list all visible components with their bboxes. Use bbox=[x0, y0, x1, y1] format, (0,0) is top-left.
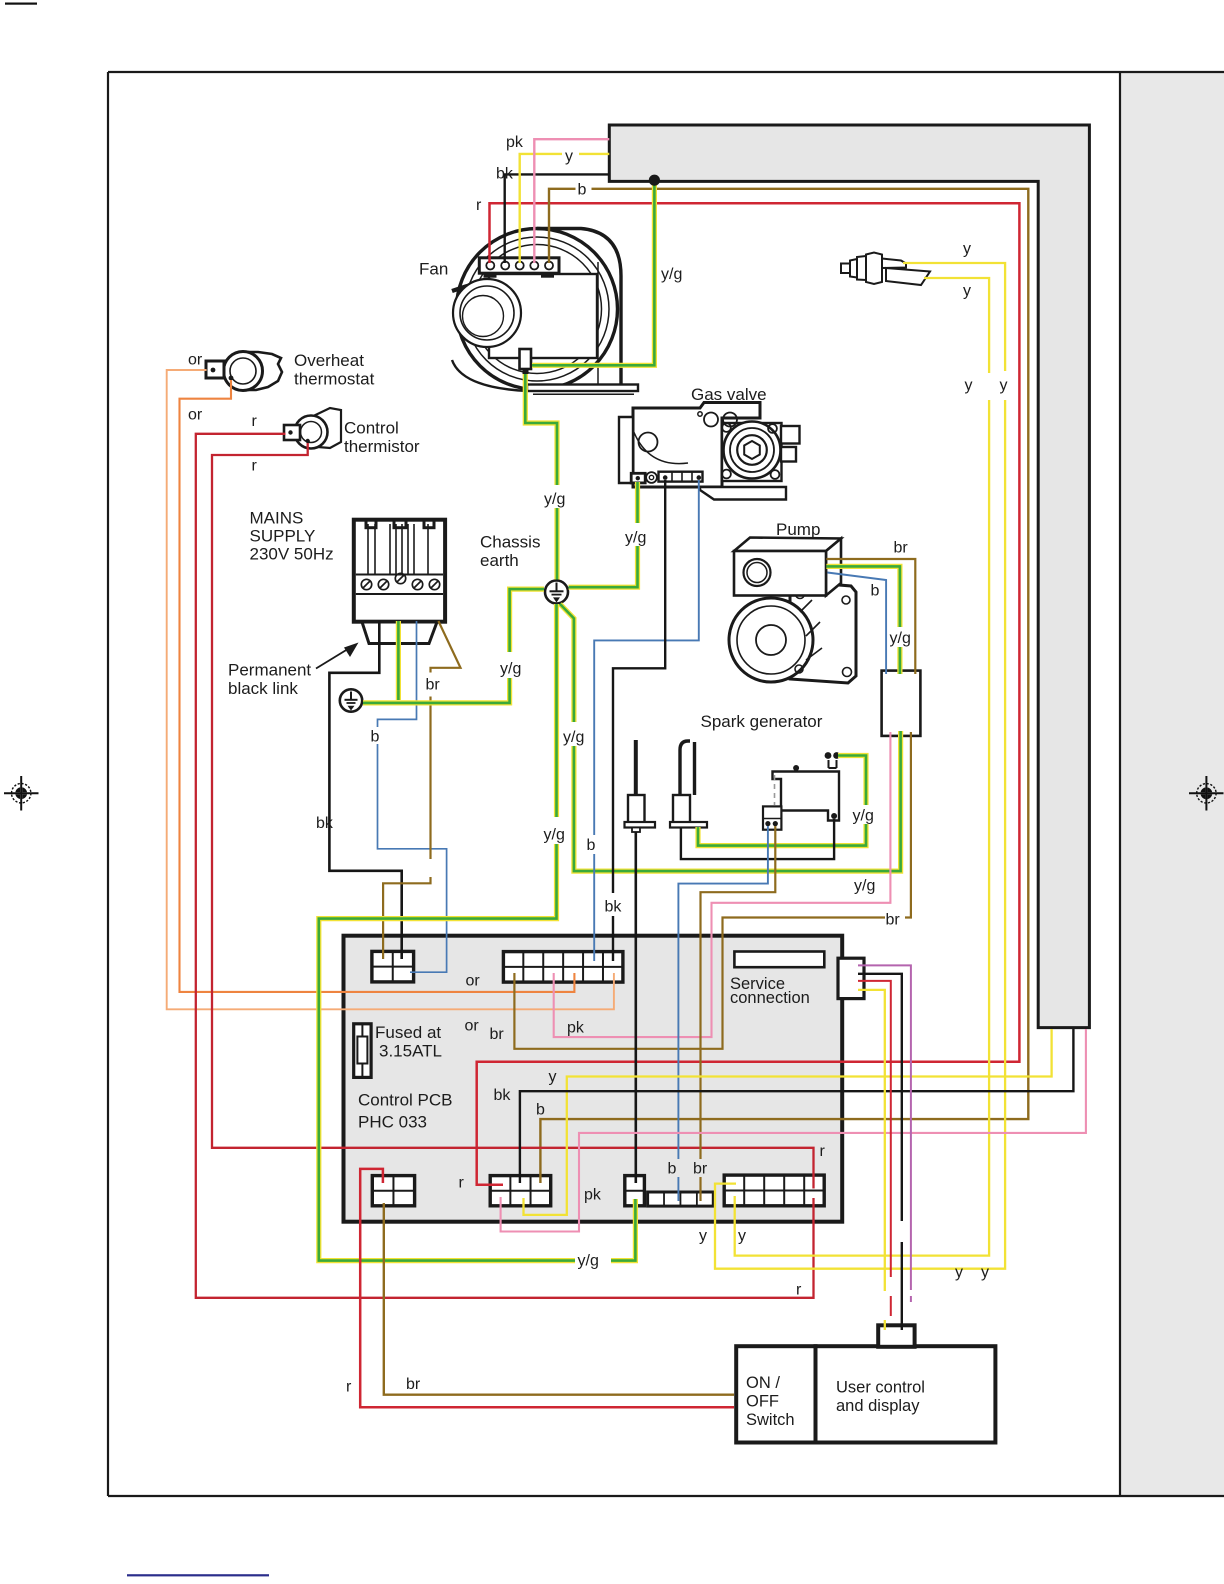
svg-text:Fused at: Fused at bbox=[375, 1023, 441, 1042]
fan connector pins 1-5 bbox=[486, 262, 494, 270]
pump terminal box bbox=[734, 538, 841, 596]
svg-text:or: or bbox=[188, 407, 203, 424]
fuse F1 symbol bbox=[354, 1024, 371, 1078]
wire bk sense electrode to PCB bbox=[634, 832, 637, 1183]
wire bk casing to PCB bbox=[520, 1029, 1074, 1183]
svg-text:b: b bbox=[371, 729, 380, 746]
service connection bar bbox=[734, 952, 824, 968]
svg-text:y: y bbox=[699, 1228, 707, 1245]
svg-text:bk: bk bbox=[494, 1087, 512, 1104]
wire r control thermistor B bbox=[212, 443, 814, 1189]
junction dot casing earth bbox=[649, 175, 660, 186]
svg-text:thermistor: thermistor bbox=[344, 437, 420, 456]
svg-text:b: b bbox=[668, 1161, 677, 1178]
svg-text:y/g: y/g bbox=[854, 878, 875, 895]
svg-text:b: b bbox=[578, 182, 587, 199]
PCB terminal block TB2 (top-middle 6-way) bbox=[503, 952, 623, 983]
registration target right bbox=[1189, 776, 1224, 811]
svg-text:r: r bbox=[252, 413, 258, 430]
svg-text:Overheat: Overheat bbox=[294, 351, 364, 370]
svg-text:or: or bbox=[188, 352, 203, 369]
svg-text:Gas valve: Gas valve bbox=[691, 385, 767, 404]
PCB service connector CN2 (right edge) bbox=[838, 958, 864, 998]
wire b pump to suppressor bbox=[827, 573, 886, 675]
svg-text:y: y bbox=[981, 1264, 989, 1281]
svg-text:User control: User control bbox=[836, 1379, 925, 1397]
svg-text:y/g: y/g bbox=[563, 729, 584, 746]
wire violet service connection bbox=[858, 965, 911, 1290]
svg-text:y/g: y/g bbox=[500, 661, 521, 678]
boiler casing grey band bbox=[609, 125, 1089, 1028]
svg-text:y: y bbox=[565, 148, 573, 165]
svg-text:r: r bbox=[796, 1282, 802, 1299]
svg-text:Control: Control bbox=[344, 419, 399, 438]
svg-text:y: y bbox=[738, 1228, 746, 1245]
PCB earth terminal TB5 bbox=[625, 1176, 645, 1206]
wire or overheat thermostat 1 bbox=[167, 370, 614, 1009]
svg-text:r: r bbox=[459, 1175, 465, 1192]
wire pk fan bbox=[534, 139, 609, 263]
svg-text:pk: pk bbox=[506, 134, 524, 151]
svg-text:y/g: y/g bbox=[853, 808, 874, 825]
overheat thermostat S2 body bbox=[206, 352, 282, 391]
svg-text:3.15ATL: 3.15ATL bbox=[379, 1042, 442, 1061]
svg-text:y/g: y/g bbox=[625, 530, 646, 547]
wire b fan (brown) bbox=[549, 189, 576, 263]
wire y/g chassis to suppressor bbox=[560, 604, 574, 722]
user control connector CN3 bbox=[878, 1325, 914, 1347]
user control and display box bbox=[816, 1346, 996, 1442]
svg-text:br: br bbox=[894, 540, 909, 557]
mains supply terminal block X1 bbox=[354, 520, 445, 622]
grey sidebar panel (right) bbox=[1121, 73, 1224, 1495]
svg-text:b: b bbox=[587, 837, 596, 854]
print registration bar top-left bbox=[5, 3, 37, 5]
svg-text:y: y bbox=[1000, 377, 1008, 394]
wire b spark generator to PCB bbox=[678, 826, 768, 1159]
svg-text:Control PCB: Control PCB bbox=[358, 1091, 452, 1110]
gas valve Y1 body bbox=[619, 403, 800, 500]
svg-text:Chassis: Chassis bbox=[480, 533, 540, 552]
svg-text:230V 50Hz: 230V 50Hz bbox=[250, 545, 334, 564]
spark generator relay block bbox=[763, 806, 781, 829]
spark ignition electrode E2 bbox=[670, 741, 707, 828]
svg-text:thermostat: thermostat bbox=[294, 370, 375, 389]
svg-text:Switch: Switch bbox=[746, 1411, 795, 1429]
wire y/g fan earth from casing dot bbox=[532, 181, 654, 365]
svg-text:PHC 033: PHC 033 bbox=[358, 1113, 427, 1132]
svg-text:or: or bbox=[466, 973, 481, 990]
svg-text:r: r bbox=[820, 1143, 826, 1160]
svg-text:br: br bbox=[693, 1161, 708, 1178]
svg-text:Permanent: Permanent bbox=[228, 661, 311, 680]
wire br pump to suppressor bbox=[826, 559, 915, 674]
wire bk gas valve bbox=[613, 480, 665, 893]
registration target left bbox=[4, 776, 39, 811]
control PCB PHC 033 board bbox=[344, 936, 843, 1222]
svg-text:br: br bbox=[886, 912, 901, 929]
wire y/g chassis to PCB earth terminal bbox=[554, 604, 559, 817]
wire br spark generator to PCB bbox=[701, 826, 776, 1159]
wire b gas valve bbox=[594, 480, 699, 835]
wire bk mains permanent black link bbox=[329, 621, 401, 959]
svg-text:y: y bbox=[963, 283, 971, 300]
svg-text:r: r bbox=[346, 1379, 352, 1396]
wire b mains neutral bbox=[378, 621, 417, 727]
wire br PCB to on/off switch bbox=[384, 1203, 734, 1395]
wire y/g spark generator earth strap bbox=[838, 756, 866, 806]
fan connector CN1 bbox=[479, 258, 559, 273]
PCB terminal block TB1 (top-left) bbox=[372, 951, 414, 982]
chassis earth symbol bbox=[545, 581, 568, 604]
fan earth port bbox=[520, 349, 532, 369]
PCB terminal block TB7 (bottom-right 5-way) bbox=[724, 1175, 824, 1206]
svg-text:r: r bbox=[252, 458, 258, 475]
svg-text:br: br bbox=[406, 1376, 421, 1393]
mains earth terminal symbol bbox=[340, 689, 362, 711]
svg-text:br: br bbox=[490, 1026, 505, 1043]
svg-text:pk: pk bbox=[567, 1020, 585, 1037]
svg-text:y: y bbox=[963, 241, 971, 258]
svg-text:or: or bbox=[465, 1018, 480, 1035]
svg-text:OFF: OFF bbox=[746, 1393, 779, 1411]
wire r service connection bbox=[858, 981, 891, 1277]
svg-text:br: br bbox=[426, 677, 441, 694]
svg-text:Pump: Pump bbox=[776, 520, 820, 539]
svg-text:y/g: y/g bbox=[890, 630, 911, 647]
svg-text:y/g: y/g bbox=[661, 266, 682, 283]
wire y flame sensor lower bbox=[924, 278, 989, 373]
fan base plate bbox=[527, 385, 638, 392]
svg-text:Spark generator: Spark generator bbox=[701, 712, 823, 731]
control thermistor RT1 body bbox=[284, 408, 341, 449]
fan M1 blower body bbox=[452, 229, 621, 392]
wire bk service connection bbox=[858, 974, 902, 1221]
mains block screw terminals bbox=[361, 579, 371, 589]
wire pk suppressor to PCB bbox=[554, 732, 891, 1037]
spark generator unit A1 bbox=[773, 760, 840, 821]
svg-text:ON /: ON / bbox=[746, 1374, 780, 1392]
wire y/g earth bus mains to chassis bbox=[363, 678, 510, 703]
PCB terminal block TB4 (bottom-middle 3-way) bbox=[490, 1176, 551, 1206]
svg-text:y: y bbox=[549, 1069, 557, 1086]
svg-text:y: y bbox=[955, 1264, 963, 1281]
PCB low connector strip TB6 bbox=[648, 1192, 714, 1206]
wire y/g chassis to gas valve bbox=[569, 546, 638, 587]
svg-text:pk: pk bbox=[584, 1187, 602, 1204]
svg-text:SUPPLY: SUPPLY bbox=[250, 527, 316, 546]
wire r control thermistor A bbox=[196, 434, 814, 1298]
wire y service connection bbox=[858, 990, 885, 1291]
wire br suppressor to PCB bbox=[905, 732, 911, 918]
wire r fan supply bbox=[477, 203, 1020, 1184]
wire y/g fan port to chassis earth bbox=[525, 374, 557, 485]
wire br mains live bbox=[431, 621, 461, 673]
svg-text:b: b bbox=[871, 583, 880, 600]
spark sense electrode E1 bbox=[625, 740, 656, 832]
gas valve terminal pins bbox=[663, 475, 668, 480]
svg-text:r: r bbox=[476, 197, 482, 214]
wire y/g mains earth drop bbox=[396, 621, 401, 700]
gas valve earth terminal bbox=[631, 473, 645, 483]
pump M2 body bbox=[729, 581, 856, 683]
wire r PCB to on/off switch bbox=[360, 1169, 734, 1407]
wire y fan bbox=[520, 154, 562, 263]
gas valve terminal strip bbox=[659, 472, 703, 482]
svg-text:y/g: y/g bbox=[578, 1253, 599, 1270]
svg-text:b: b bbox=[536, 1102, 545, 1119]
svg-text:MAINS: MAINS bbox=[250, 509, 304, 528]
svg-text:y/g: y/g bbox=[544, 827, 565, 844]
wire y flame sensor upper bbox=[903, 263, 1005, 371]
svg-text:bk: bk bbox=[605, 899, 623, 916]
svg-text:y: y bbox=[965, 377, 973, 394]
ON/OFF switch S1 box bbox=[736, 1346, 815, 1442]
svg-text:bk: bk bbox=[316, 815, 334, 832]
wire bk ignition electrode link bbox=[681, 819, 834, 859]
svg-text:and display: and display bbox=[836, 1397, 920, 1415]
flame sensor probe bbox=[841, 253, 930, 286]
PCB terminal block TB3 (bottom-left) bbox=[372, 1176, 414, 1206]
wire pk casing to PCB bbox=[501, 1029, 1086, 1232]
interference suppressor box bbox=[882, 671, 921, 736]
wire or overheat thermostat 2 bbox=[180, 380, 575, 992]
mains block cable entry bbox=[362, 622, 437, 644]
blue footer rule bottom-left bbox=[127, 1574, 269, 1576]
svg-text:black link: black link bbox=[228, 679, 298, 698]
arrow permanent black link bbox=[316, 647, 352, 669]
wire bk fan bbox=[505, 174, 610, 263]
svg-text:Fan: Fan bbox=[419, 260, 448, 279]
svg-text:connection: connection bbox=[730, 989, 810, 1007]
svg-text:bk: bk bbox=[496, 166, 514, 183]
svg-text:y/g: y/g bbox=[544, 491, 565, 508]
wire y/g pump earth bbox=[826, 566, 900, 627]
svg-text:earth: earth bbox=[480, 551, 519, 570]
wire y casing to PCB bbox=[524, 1029, 1052, 1215]
